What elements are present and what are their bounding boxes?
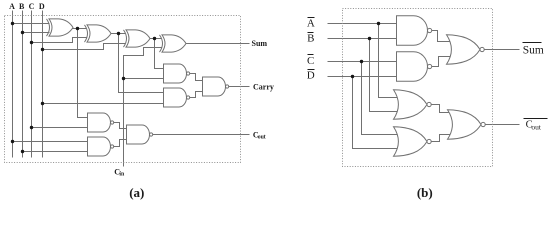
nand-gate U9 bbox=[203, 77, 226, 96]
svg-text:out: out bbox=[258, 134, 266, 140]
node Sum-bar output label bbox=[523, 42, 542, 44]
wire U12 output to U15 bbox=[432, 57, 452, 67]
wire U8 output to U10 bbox=[114, 140, 127, 147]
node D branch junction bbox=[41, 48, 44, 51]
wire Cin branch to gate U6 bbox=[124, 78, 164, 80]
nor-gate U14 bbox=[394, 127, 428, 157]
wire XOR2 output tap down to gate U7 bbox=[119, 34, 164, 93]
nand-gate U5 bbox=[88, 113, 111, 132]
xor-gate U1 bbox=[49, 19, 73, 36]
nand-gate U10 bbox=[127, 125, 150, 144]
svg-text:C: C bbox=[307, 55, 314, 67]
nand-gate U7 bbox=[164, 88, 187, 107]
wire C to XOR2 bottom input bbox=[32, 38, 87, 43]
node XOR1 output junction bbox=[76, 27, 79, 30]
node Cout-bar output label bbox=[524, 118, 548, 120]
wire Carry output bbox=[229, 86, 250, 88]
nor-gate U16 bbox=[448, 110, 482, 140]
wire D to gate U7 bottom input bbox=[43, 103, 164, 105]
boundary box (a) bbox=[5, 16, 241, 163]
wire A-bar tap down to NOR U13 bbox=[379, 24, 399, 98]
wire Cout output bbox=[153, 134, 250, 136]
wire U13 output to U16 bbox=[432, 105, 453, 113]
wire Cout-bar output bbox=[486, 124, 520, 126]
wire U6 output to U9 bbox=[190, 74, 203, 81]
wire B-bar tap down to NOR U13 bbox=[370, 39, 399, 112]
svg-text:(a): (a) bbox=[129, 185, 144, 200]
wire rail B bbox=[22, 11, 24, 158]
wire C to gate U5 bottom input bbox=[32, 127, 88, 129]
wire D to XOR3 bottom input bbox=[43, 44, 126, 50]
xor-gate U2 bbox=[87, 25, 111, 42]
wire rail D bbox=[42, 11, 44, 158]
node D branch junction 2 bbox=[41, 102, 44, 105]
wire rail A bbox=[12, 11, 14, 158]
node A-bar input label bbox=[308, 17, 315, 19]
svg-text:A: A bbox=[9, 2, 15, 11]
nand-gate U8 bbox=[88, 137, 111, 156]
node C-bar junction bbox=[360, 60, 363, 63]
wire XOR1 output tap down to gate U5 bbox=[78, 29, 88, 118]
wire D-bar input bbox=[328, 76, 397, 78]
node D-bar junction bbox=[351, 75, 354, 78]
wire rail C bbox=[31, 11, 33, 158]
xor-gate U4 bbox=[162, 35, 186, 52]
node B-bar input label bbox=[308, 32, 314, 34]
wire Sum-bar output bbox=[485, 49, 520, 51]
wire XOR3 output tap down to gate U6 bbox=[155, 39, 164, 69]
node C-bar input label bbox=[308, 54, 314, 56]
svg-text:A: A bbox=[307, 18, 315, 30]
node B branch junction 2 bbox=[21, 150, 24, 153]
svg-text:D: D bbox=[39, 2, 45, 11]
svg-text:Sum: Sum bbox=[523, 45, 544, 57]
wire C-bar input bbox=[328, 61, 397, 63]
nand-gate U6 bbox=[164, 64, 187, 83]
xor-gate U3 bbox=[126, 30, 150, 47]
wire B-bar input bbox=[328, 38, 397, 40]
boundary box (b) bbox=[343, 9, 493, 167]
node XOR2 output junction bbox=[117, 32, 120, 35]
nor-gate U15 bbox=[447, 35, 481, 65]
wire XOR1 output to XOR2 input bbox=[73, 28, 87, 30]
svg-text:B: B bbox=[307, 32, 314, 44]
wire XOR3 output to XOR4 input bbox=[150, 38, 162, 40]
wire U11 output to U15 bbox=[432, 31, 452, 42]
wire U5 output to U10 bbox=[114, 123, 127, 129]
wire B to gate U8 bottom input bbox=[23, 151, 88, 153]
nand-gate U11 bbox=[397, 16, 428, 46]
svg-text:Sum: Sum bbox=[252, 39, 268, 48]
node A branch junction 2 bbox=[11, 140, 14, 143]
nor-gate U13 bbox=[394, 90, 428, 120]
node D-bar input label bbox=[308, 69, 315, 71]
wire Cin vertical riser bbox=[124, 48, 162, 167]
wire U14 output to U16 bbox=[432, 135, 453, 142]
svg-text:(b): (b) bbox=[417, 185, 433, 200]
node C branch junction bbox=[30, 41, 33, 44]
wire A to gate U8 top input bbox=[13, 141, 88, 143]
svg-text:Carry: Carry bbox=[253, 82, 274, 91]
wire U7 output to U9 bbox=[190, 92, 203, 98]
node A-bar junction bbox=[377, 22, 380, 25]
node A branch junction bbox=[11, 22, 14, 25]
node Cin junction bbox=[122, 77, 125, 80]
wire A-bar input bbox=[328, 23, 397, 25]
svg-text:out: out bbox=[531, 123, 542, 132]
svg-text:D: D bbox=[307, 69, 315, 81]
nand-gate U12 bbox=[397, 52, 428, 82]
svg-text:B: B bbox=[19, 2, 25, 11]
svg-text:in: in bbox=[119, 171, 125, 177]
wire A to XOR1 top input bbox=[13, 23, 50, 25]
wire B to XOR1 bottom input bbox=[23, 32, 50, 34]
wire XOR2 output to XOR3 input bbox=[111, 33, 126, 35]
svg-text:C: C bbox=[29, 2, 35, 11]
node C branch junction 2 bbox=[30, 126, 33, 129]
wire D-bar tap down to NOR U14 bbox=[353, 77, 399, 149]
node XOR3 output junction bbox=[153, 37, 156, 40]
wire Sum output bbox=[186, 43, 250, 45]
node B-bar junction bbox=[368, 37, 371, 40]
node B branch junction bbox=[21, 31, 24, 34]
wire C-bar tap down to NOR U14 bbox=[362, 62, 399, 135]
